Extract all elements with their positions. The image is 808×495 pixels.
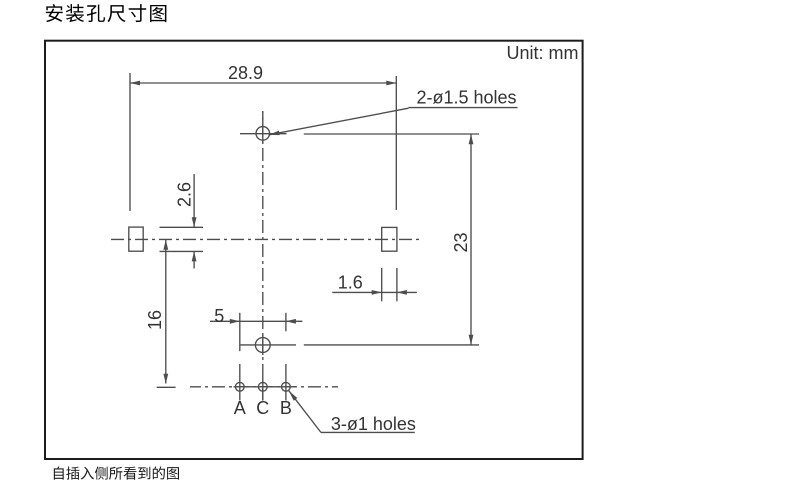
svg-text:Unit: mm: Unit: mm	[507, 43, 579, 63]
svg-text:1.6: 1.6	[338, 273, 363, 293]
svg-text:23: 23	[451, 232, 471, 252]
svg-text:2.6: 2.6	[175, 182, 195, 207]
svg-text:B: B	[280, 398, 292, 418]
svg-text:16: 16	[145, 310, 165, 330]
svg-text:28.9: 28.9	[228, 63, 263, 83]
svg-text:A: A	[234, 398, 246, 418]
svg-text:5: 5	[214, 306, 224, 326]
svg-text:C: C	[256, 398, 269, 418]
svg-text:2-ø1.5 holes: 2-ø1.5 holes	[417, 88, 517, 108]
svg-text:3-ø1 holes: 3-ø1 holes	[331, 414, 416, 434]
